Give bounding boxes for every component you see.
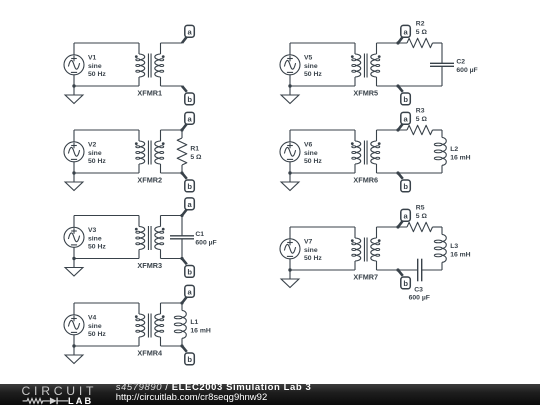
svg-text:b: b [403,182,408,191]
node a [182,209,187,215]
transformer XFMR7 primary winding [355,238,361,261]
label C1 value 600 &#181;F [195,231,216,246]
svg-text:16 mH: 16 mH [190,328,210,335]
wire V1 bottom to XFMR1 [74,85,139,87]
wire R5 to right branch [433,226,443,228]
wire V5 bottom to XFMR5 [290,85,355,87]
svg-text:5 Ω: 5 Ω [190,154,202,161]
label R5 value 5 &#937; [416,205,428,220]
svg-text:V6: V6 [304,141,313,148]
CircuitLab logo wordmark LAB [68,396,93,407]
svg-text:R5: R5 [416,205,425,212]
voltage source V6 [280,130,300,173]
svg-text:R2: R2 [416,21,425,28]
junction dot at ground node [72,257,75,260]
ground [65,259,83,277]
wire V3 top to XFMR3 [74,215,139,217]
svg-text:50 Hz: 50 Hz [88,71,106,78]
transformer XFMR3 polarity dots [135,228,138,231]
wire V7 bottom to XFMR7 [290,269,355,271]
transformer XFMR6 polarity dots [351,142,354,145]
wire XFMR4 secondary bottom [161,345,183,347]
transformer XFMR3 primary winding [139,227,145,250]
transformer XFMR2 polarity dots [135,142,138,145]
transformer XFMR7 polarity dots [351,239,354,242]
svg-text:XFMR1: XFMR1 [137,89,162,98]
svg-text:sine: sine [88,235,102,242]
svg-text:b: b [403,279,408,288]
junction dot node a [180,301,183,304]
node b [398,270,403,276]
junction dot node a [396,41,399,44]
transformer XFMR3 core [147,226,149,250]
wire V4 top to XFMR4 [74,302,139,304]
svg-text:5 Ω: 5 Ω [416,29,428,36]
node b [182,346,187,352]
voltage source V1 [64,43,84,86]
svg-text:sine: sine [304,247,318,254]
resistor R1 [177,130,187,173]
junction dot at ground node [288,84,291,87]
capacitor C1 [170,216,194,259]
node b [182,173,187,179]
transformer XFMR1 primary winding [139,54,145,77]
wire R2 to right branch [433,42,443,44]
ground [65,86,83,104]
transformer XFMR2 primary winding [139,141,145,164]
svg-text:C2: C2 [456,59,465,66]
node b [182,259,187,265]
voltage source V4 [64,303,84,346]
svg-text:b: b [403,95,408,104]
junction dot node b [396,268,399,271]
transformer XFMR7 secondary winding [371,238,377,261]
wire V1 top to XFMR1 [74,42,139,44]
label V5 value [304,54,322,78]
svg-text:V5: V5 [304,54,313,61]
label C3 value 600 &#181;F [409,286,430,301]
node b [398,86,403,92]
inductor L3 [434,227,446,270]
svg-text:sine: sine [304,63,318,70]
svg-text:b: b [187,95,192,104]
junction dot node a [396,128,399,131]
transformer XFMR1 secondary winding [155,54,161,77]
transformer XFMR2 secondary winding [155,141,161,164]
wire XFMR1 secondary top [161,42,183,44]
junction dot node a [180,214,183,217]
voltage source V3 [64,216,84,259]
transformer XFMR4 polarity dots [135,315,138,318]
junction dot node b [180,344,183,347]
wire XFMR2 secondary bottom [161,172,183,174]
svg-text:V1: V1 [88,54,97,61]
ground [65,346,83,364]
node b [182,86,187,92]
svg-text:b: b [187,355,192,364]
svg-text:b: b [187,268,192,277]
wire V4 bottom to XFMR4 [74,345,139,347]
node a [398,221,403,227]
junction dot at ground node [288,171,291,174]
wire XFMR7 secondary top to R5 [377,226,408,228]
svg-text:50 Hz: 50 Hz [88,158,106,165]
svg-text:L3: L3 [450,243,458,250]
svg-text:5 Ω: 5 Ω [416,116,428,123]
junction dot node a [396,225,399,228]
wire R3 to right branch [433,129,443,131]
label L2 value 16 mH [450,146,470,161]
node a [398,37,403,43]
transformer XFMR2 core [147,141,149,165]
svg-text:C3: C3 [414,286,423,293]
svg-text:L1: L1 [190,319,198,326]
resistor R5 [407,222,433,231]
label R2 value 5 &#937; [416,21,428,36]
svg-text:50 Hz: 50 Hz [304,255,322,262]
CircuitLab logo resistor-diode squiggle [0,384,70,406]
transformer XFMR6 secondary winding [371,141,377,164]
node a [182,297,187,303]
svg-text:V4: V4 [88,314,97,321]
svg-text:b: b [187,182,192,191]
junction dot at ground node [288,268,291,271]
capacitor C3 [418,259,422,282]
transformer XFMR5 core [363,54,365,78]
footer caption text [116,383,312,403]
transformer XFMR5 polarity dots [351,55,354,58]
svg-text:V3: V3 [88,227,97,234]
wire XFMR3 secondary top [161,215,183,217]
node a [182,37,187,43]
label R3 value 5 &#937; [416,108,428,123]
wire V2 bottom to XFMR2 [74,172,139,174]
label L3 value 16 mH [450,243,470,258]
svg-text:XFMR5: XFMR5 [353,89,378,98]
transformer XFMR1 core [147,54,149,78]
voltage source V5 [280,43,300,86]
voltage source V2 [64,130,84,173]
junction dot node b [396,171,399,174]
svg-text:16 mH: 16 mH [450,155,470,162]
ground [281,270,299,288]
ground [281,173,299,191]
wire XFMR4 secondary top [161,302,183,304]
svg-text:R1: R1 [190,145,199,152]
svg-text:sine: sine [88,323,102,330]
resistor R3 [407,125,433,134]
transformer XFMR1 polarity dots [135,55,138,58]
svg-text:600 µF: 600 µF [409,294,430,301]
wire secondary bottom right of C3 [422,269,442,271]
svg-text:C1: C1 [195,231,204,238]
wire V5 top to XFMR5 [290,42,355,44]
junction dot node b [180,257,183,260]
transformer XFMR5 primary winding [355,54,361,77]
junction dot node b [396,84,399,87]
capacitor C2 [430,43,454,86]
node a [182,124,187,130]
wire V7 top to XFMR7 [290,226,355,228]
ground [281,86,299,104]
label V4 value [88,314,106,338]
junction dot at ground node [72,84,75,87]
transformer XFMR6 core [363,141,365,165]
label V7 value [304,238,322,262]
svg-text:XFMR2: XFMR2 [137,176,162,185]
svg-text:50 Hz: 50 Hz [88,331,106,338]
transformer XFMR4 primary winding [139,314,145,337]
wire V6 top to XFMR6 [290,129,355,131]
junction dot node b [180,171,183,174]
svg-text:sine: sine [88,150,102,157]
svg-text:5 Ω: 5 Ω [416,213,428,220]
node a [398,124,403,130]
svg-text:XFMR4: XFMR4 [137,349,163,358]
svg-text:XFMR7: XFMR7 [353,273,378,282]
wire XFMR5 secondary bottom [377,85,443,87]
junction dot at ground node [72,344,75,347]
svg-text:600 µF: 600 µF [456,67,477,74]
footer bar [0,384,540,406]
transformer XFMR4 secondary winding [155,314,161,337]
svg-text:16 mH: 16 mH [450,252,470,259]
resistor R2 [407,38,433,47]
label V2 value [88,141,106,165]
label R1 value 5 &#937; [190,145,202,160]
svg-text:50 Hz: 50 Hz [304,71,322,78]
junction dot node a [180,128,183,131]
wire secondary bottom left of C3 [377,269,418,271]
svg-text:600 µF: 600 µF [195,240,216,247]
wire V2 top to XFMR2 [74,129,139,131]
junction dot at ground node [72,171,75,174]
wire V3 bottom to XFMR3 [74,258,139,260]
node b [398,173,403,179]
wire XFMR3 secondary bottom [161,258,183,260]
voltage source V7 [280,227,300,270]
wire XFMR1 secondary bottom [161,85,183,87]
inductor L1 [174,303,186,346]
svg-text:XFMR6: XFMR6 [353,176,378,185]
label V6 value [304,141,322,165]
inductor L2 [434,130,446,173]
svg-text:50 Hz: 50 Hz [88,244,106,251]
ground [65,173,83,191]
label V3 value [88,227,106,251]
CircuitLab logo wordmark CIRCUIT [22,384,98,399]
svg-text:sine: sine [304,150,318,157]
wire XFMR6 secondary top to R3 [377,129,408,131]
transformer XFMR7 core [363,238,365,262]
transformer XFMR3 secondary winding [155,227,161,250]
label L1 value 16 mH [190,319,210,334]
transformer XFMR5 secondary winding [371,54,377,77]
label V1 value [88,54,106,78]
svg-text:V7: V7 [304,238,313,245]
wire XFMR6 secondary bottom [377,172,443,174]
svg-text:R3: R3 [416,108,425,115]
svg-text:sine: sine [88,63,102,70]
wire XFMR5 secondary top to R2 [377,42,408,44]
wire XFMR2 secondary top [161,129,183,131]
transformer XFMR6 primary winding [355,141,361,164]
svg-text:V2: V2 [88,141,97,148]
transformer XFMR4 core [147,314,149,338]
svg-text:XFMR3: XFMR3 [137,261,162,270]
svg-text:50 Hz: 50 Hz [304,158,322,165]
wire V6 bottom to XFMR6 [290,172,355,174]
label C2 value 600 &#181;F [456,59,477,74]
svg-text:L2: L2 [450,146,458,153]
